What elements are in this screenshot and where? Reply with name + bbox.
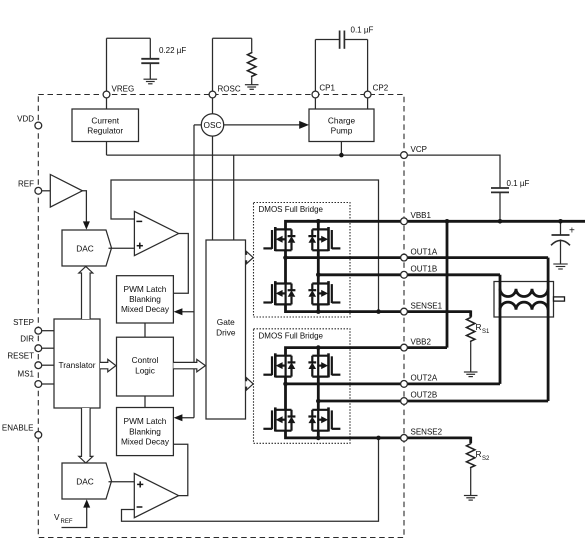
capacitor 0.22uF at VREG (141, 59, 159, 63)
pin DIR (35, 345, 42, 352)
svg-text:DAC: DAC (76, 476, 94, 486)
Current Regulator block U-reg (72, 109, 139, 142)
Control Logic block (117, 337, 174, 396)
wire STEP stub (41, 330, 54, 332)
svg-text:SENSE2: SENSE2 (411, 428, 443, 437)
pin ROSC (209, 91, 216, 98)
pin CP1 (312, 91, 319, 98)
wire DAC1 to comparator1 plus input (109, 247, 135, 249)
svg-text:OSC: OSC (204, 120, 222, 130)
node VCP junction (339, 153, 344, 158)
svg-text:CP2: CP2 (373, 84, 389, 93)
transistor Q5 bridge2 high-side left (263, 353, 295, 377)
wire VREG bypass loop (106, 38, 108, 109)
wire buffer output to DAC1 with arrow (82, 191, 86, 224)
ground below 0.22uF cap (144, 79, 158, 84)
wire bridge1 phase node OUT1A (284, 250, 287, 283)
svg-text:REF: REF (18, 180, 34, 189)
PWM Latch Blanking Mixed Decay block 2 (117, 408, 174, 456)
svg-text:S2: S2 (482, 456, 490, 462)
wire comparator2 output to PWM2 (173, 444, 187, 495)
svg-text:REF: REF (61, 519, 73, 525)
svg-text:Control: Control (132, 355, 159, 365)
capacitor electrolytic bulk at VBB (560, 221, 562, 235)
transistor Q1 bridge1 high-side left (263, 227, 295, 251)
bus arrow Gate Drive to bridge 2 (246, 378, 254, 390)
wire VCP rail tee down to Gate Drive top (233, 155, 235, 240)
svg-text:STEP: STEP (13, 318, 34, 327)
wire CP1 riser (314, 40, 316, 110)
DAC U2 (lower) (62, 463, 112, 499)
wire bridge2 VBB2 rail (286, 348, 448, 355)
svg-text:Blanking: Blanking (129, 294, 161, 304)
svg-text:MS1: MS1 (18, 370, 35, 379)
wire bridge1 phase node OUT1B (317, 250, 320, 283)
wire bridge2 sense rail SENSE2 (286, 431, 471, 438)
transistor Q3 bridge1 low-side left (263, 281, 295, 305)
svg-text:DMOS Full Bridge: DMOS Full Bridge (259, 205, 324, 214)
op-amp comparator 1 (134, 211, 178, 255)
svg-text:Gate: Gate (217, 317, 235, 327)
svg-text:VDD: VDD (17, 114, 34, 123)
svg-text:VBB1: VBB1 (411, 211, 432, 220)
op-amp REF buffer (50, 175, 82, 208)
motor winding phase 1 (500, 289, 548, 297)
pin VREG (103, 91, 110, 98)
svg-text:0.22 µF: 0.22 µF (159, 46, 186, 55)
wire Control Logic to PWM2 (144, 396, 146, 408)
wire bridge2 phase node OUT2A (284, 376, 287, 409)
transistor Q2 bridge1 high-side right (mirrored) (308, 227, 340, 251)
ground below electrolytic cap (553, 264, 567, 269)
pin OUT2A (401, 381, 408, 388)
svg-text:SENSE1: SENSE1 (411, 301, 443, 310)
svg-text:Pump: Pump (331, 126, 353, 136)
motor shaft stub (554, 297, 565, 301)
pin OUT2B (401, 398, 408, 405)
wire DAC2 to comparator2 plus input (109, 481, 135, 483)
svg-text:VCP: VCP (411, 145, 427, 154)
svg-text:Mixed Decay: Mixed Decay (121, 437, 170, 447)
svg-text:0.1 µF: 0.1 µF (351, 26, 374, 35)
DMOS Full Bridge 2 dotted box (254, 329, 351, 444)
wire VCP to 0.1uF cap to VBB1 (404, 155, 500, 188)
DMOS Full Bridge 1 dotted box (254, 203, 351, 318)
wire PWM1 to Control Logic (144, 323, 146, 337)
wire motor right riser OUT1A-OUT2B (547, 258, 550, 401)
resistor Rs2 sense 2 (469, 437, 472, 443)
ground below ROSC resistor (245, 85, 259, 90)
svg-text:DIR: DIR (20, 335, 34, 344)
bus arrow Translator to Control Logic (100, 359, 116, 371)
transistor Q8 bridge2 low-side right (mirrored) (308, 407, 340, 431)
wire OSC down to Gate Drive top (212, 136, 214, 240)
op-amp comparator 2 (134, 473, 178, 517)
transistor Q7 bridge2 low-side left (263, 407, 295, 431)
wire OSC left blanking line down to PWM blocks (194, 124, 201, 126)
wire ROSC loop (212, 38, 214, 114)
wire OSC to Charge Pump with arrow (224, 124, 302, 126)
pin STEP (35, 327, 42, 334)
resistor at ROSC (248, 52, 256, 78)
pin OUT1B (401, 271, 408, 278)
pin RESET (35, 362, 42, 369)
bus arrow Gate Drive to bridge 1 (246, 252, 254, 264)
svg-text:0.1 µF: 0.1 µF (507, 179, 530, 188)
wire Q2 drain lead (317, 221, 320, 228)
wire bridge2 phase node OUT2B (317, 376, 320, 409)
wire DIR stub (41, 347, 54, 349)
svg-text:VBB2: VBB2 (411, 337, 432, 346)
pin REF (35, 187, 42, 194)
svg-text:Mixed Decay: Mixed Decay (121, 304, 170, 314)
svg-text:RESET: RESET (7, 352, 34, 361)
pin VCP (401, 152, 408, 159)
pin VBB2 (401, 344, 408, 351)
svg-text:Charge: Charge (328, 115, 356, 125)
svg-text:Drive: Drive (216, 328, 236, 338)
DAC U1 (upper) (62, 230, 112, 266)
capacitor 0.1uF between CP1 CP2 (340, 31, 345, 49)
svg-text:DMOS Full Bridge: DMOS Full Bridge (259, 331, 324, 340)
transistor Q4 bridge1 low-side right (mirrored) (308, 281, 340, 305)
transistor Q6 bridge2 high-side right (mirrored) (308, 353, 340, 377)
capacitor 0.1uF at VCP (491, 188, 509, 192)
wire Q6 drain lead (317, 348, 320, 355)
wire REF pin to buffer (41, 190, 50, 192)
pin ENABLE (35, 432, 42, 439)
svg-text:OUT1A: OUT1A (411, 247, 438, 256)
node bridge2 junctions (316, 345, 321, 350)
wire Charge Pump down to VCP rail (340, 142, 342, 156)
wire VCP rail from Current Regulator to VCP pin (107, 125, 405, 418)
svg-text:R: R (476, 322, 482, 332)
svg-text:Blanking: Blanking (129, 426, 161, 436)
IC boundary dashed box (38, 95, 404, 538)
bus arrow Translator down to DAC2 (79, 408, 93, 463)
svg-text:OUT2A: OUT2A (411, 374, 438, 383)
wire bridge1 sense rail SENSE1 (286, 305, 471, 312)
wire VBB2 riser to VBB1 rail (446, 221, 449, 347)
wire motor left riser OUT1B-OUT2A (499, 275, 502, 384)
svg-text:Translator: Translator (58, 360, 95, 370)
svg-text:OUT1B: OUT1B (411, 265, 438, 274)
svg-text:ROSC: ROSC (218, 85, 241, 94)
op-amp OSC circle (201, 114, 223, 136)
node bridge1 junctions (316, 219, 321, 224)
wire RESET stub (41, 364, 54, 366)
resistor Rs1 sense 1 (469, 310, 472, 316)
pin MS1 (35, 381, 42, 388)
bus arrow Translator up to DAC1 (79, 266, 93, 319)
svg-text:CP1: CP1 (319, 84, 335, 93)
wire bridge1 VBB rail (286, 221, 585, 228)
Charge Pump block (309, 109, 374, 142)
svg-text:S1: S1 (482, 329, 490, 335)
svg-text:PWM Latch: PWM Latch (124, 416, 167, 426)
motor winding phase 2 (500, 302, 548, 310)
svg-text:PWM Latch: PWM Latch (124, 284, 167, 294)
pin CP2 (364, 91, 371, 98)
svg-text:DAC: DAC (76, 243, 94, 253)
svg-text:Regulator: Regulator (87, 126, 123, 136)
PWM Latch Blanking Mixed Decay block 1 (117, 276, 174, 323)
svg-text:Current: Current (91, 115, 119, 125)
Gate Drive block (206, 240, 246, 419)
wire MS1 stub (41, 383, 54, 385)
svg-text:ENABLE: ENABLE (2, 423, 34, 432)
Translator block (54, 319, 100, 408)
wire sense2 feedback to comparator2 minus input (122, 438, 379, 521)
svg-text:+: + (569, 225, 575, 236)
wire VREF input arrow into DAC2 (62, 506, 87, 528)
pin SENSE1 (401, 308, 408, 315)
pin SENSE2 (401, 435, 408, 442)
svg-text:V: V (54, 512, 60, 522)
svg-text:R: R (476, 449, 482, 459)
pin VDD (35, 122, 42, 129)
bus arrow Control Logic to Gate Drive (173, 359, 205, 371)
svg-text:VREG: VREG (112, 85, 135, 94)
pin OUT1A (401, 254, 408, 261)
wire CP2 riser (367, 40, 369, 110)
svg-text:OUT2B: OUT2B (411, 391, 438, 400)
svg-text:Logic: Logic (135, 366, 155, 376)
motor load box (494, 282, 554, 318)
wire comparator1 output to PWM1 (173, 234, 188, 294)
pin VBB1 (401, 218, 408, 225)
wire sense1 feedback to comparator1 minus input (111, 180, 379, 312)
